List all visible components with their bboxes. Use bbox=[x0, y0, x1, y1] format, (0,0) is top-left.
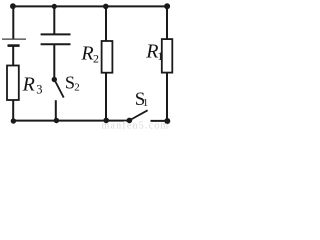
wire R2 to bottom bus bbox=[105, 73, 107, 121]
wire left rail top (top bus to battery) bbox=[12, 6, 14, 38]
wire top bus to R2 bbox=[105, 6, 107, 41]
wire bottom bus right segment (after S1) bbox=[151, 120, 168, 122]
switch S2 lever bbox=[54, 79, 63, 97]
label R2 bbox=[80, 43, 99, 66]
wire top bus to capacitor bbox=[53, 6, 55, 33]
svg-text:2: 2 bbox=[74, 82, 80, 94]
wire R1 to bottom bus bbox=[166, 73, 168, 121]
node bottom-left junction bbox=[11, 118, 16, 123]
wire top bus bbox=[12, 5, 168, 7]
svg-text:3: 3 bbox=[36, 83, 42, 97]
resistor R2 bbox=[102, 41, 113, 73]
node top R2 junction bbox=[103, 4, 109, 10]
wire R3 to bottom bus bbox=[12, 100, 14, 121]
wire capacitor to S2 bbox=[53, 44, 55, 79]
resistor R3 bbox=[7, 66, 19, 101]
svg-text:R: R bbox=[80, 43, 93, 65]
svg-text:2: 2 bbox=[93, 52, 99, 66]
switch S1 lever bbox=[129, 110, 147, 120]
svg-text:manfen5.com: manfen5.com bbox=[102, 120, 170, 129]
wire battery to R3 bbox=[12, 46, 14, 66]
node bottom R2 junction bbox=[103, 118, 109, 124]
node S1 pivot contact bbox=[127, 118, 133, 124]
node top-left junction bbox=[10, 3, 16, 9]
node bottom S2 junction bbox=[54, 118, 59, 123]
node bottom-right junction bbox=[164, 118, 170, 124]
battery (cell) bbox=[2, 39, 26, 46]
wire right rail top (top bus to R1) bbox=[166, 6, 168, 39]
wire bottom bus left segment (to S1 pivot) bbox=[13, 120, 129, 122]
label S2 bbox=[65, 73, 80, 94]
node top capacitor junction bbox=[52, 4, 57, 9]
svg-text:1: 1 bbox=[143, 97, 149, 109]
svg-text:R: R bbox=[22, 73, 35, 95]
node S2 upper contact bbox=[52, 77, 57, 82]
label S1 bbox=[135, 89, 149, 110]
svg-text:1: 1 bbox=[157, 49, 163, 63]
capacitor C bbox=[41, 34, 71, 44]
resistor R1 bbox=[162, 39, 173, 73]
label R1 bbox=[145, 41, 163, 63]
node top-right junction bbox=[164, 3, 170, 9]
label R3 bbox=[22, 73, 43, 96]
wire S2 lower contact to bottom bus bbox=[55, 100, 57, 120]
